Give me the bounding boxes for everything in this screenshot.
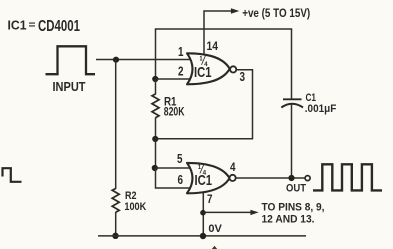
- input pulse waveform icon: [46, 46, 96, 74]
- wire: pin 5 stub: [156, 167, 192, 169]
- wire: top feedback rail: [155, 28, 292, 30]
- node: input junction: [113, 57, 119, 63]
- wire: pin 7 to 0V rail: [202, 193, 204, 236]
- label TO PINS 8, 9, 12 AND 13.: [262, 201, 325, 225]
- node: pin 7 to 0V rail junction: [200, 233, 206, 239]
- node: R2 to 0V rail junction: [112, 233, 118, 239]
- resistor R1: [152, 94, 159, 118]
- svg-text:6: 6: [178, 172, 184, 187]
- label C1 .001uF: [305, 92, 337, 115]
- wire: feedback horizontal from pin 3: [156, 138, 253, 140]
- svg-text:4: 4: [230, 162, 236, 174]
- arrowhead to pins 8,9,12,13: [250, 210, 258, 215]
- output square wave icon: [313, 164, 382, 190]
- node: pin 5 junction: [152, 165, 158, 171]
- svg-text:.001μF: .001μF: [305, 103, 337, 115]
- left-edge small pulse waveform (cut off): [3, 168, 22, 182]
- bottom caption arrow tip (cut off): [212, 246, 217, 249]
- svg-text:0V: 0V: [208, 223, 222, 235]
- svg-text:3: 3: [240, 69, 246, 84]
- wire: node down to pin 5: [155, 139, 157, 168]
- wire: pin 6 bracket: [156, 168, 192, 188]
- capacitor C1: [281, 29, 303, 178]
- wire: 0V rail: [98, 235, 306, 237]
- NOR gate U1b IC1 (pins 5,6 -> 4): [187, 163, 236, 193]
- svg-text:100K: 100K: [124, 201, 146, 213]
- title label IC1 = CD4001: [8, 18, 81, 35]
- label R1 820K: [164, 94, 185, 118]
- node: pin 7 arrow junction: [200, 210, 206, 216]
- svg-text:CD4001: CD4001: [38, 18, 80, 35]
- wire: arrow to pins 8,9,12,13: [203, 211, 251, 213]
- label R2 100K: [124, 190, 146, 213]
- svg-text:12 AND 13.: 12 AND 13.: [262, 213, 315, 225]
- wire: R1 bottom to node: [155, 118, 157, 140]
- node: R1 bottom / feedback junction: [152, 136, 158, 142]
- svg-text:5: 5: [177, 151, 183, 166]
- svg-text:820K: 820K: [164, 105, 185, 118]
- svg-text:INPUT: INPUT: [53, 80, 86, 94]
- svg-text:2: 2: [178, 64, 184, 79]
- NOR gate U1a IC1 (pins 1,2 -> 3): [187, 53, 236, 84]
- svg-text:7: 7: [207, 194, 213, 206]
- wire: R2 bottom to 0V rail: [115, 212, 117, 236]
- svg-text:+ve (5 TO 15V): +ve (5 TO 15V): [242, 6, 310, 20]
- node: OUT junction: [288, 175, 294, 181]
- OUT terminal circle: [305, 176, 310, 181]
- svg-text:OUT: OUT: [286, 183, 306, 195]
- wire: pin 2 stub: [156, 78, 192, 80]
- svg-text:=: =: [29, 20, 36, 31]
- wire: pin 2 node to R1 top: [155, 79, 157, 95]
- svg-text:1: 1: [178, 44, 184, 59]
- wire: input line to pin 1: [96, 59, 191, 61]
- wire: pin 4 output to OUT terminal: [236, 177, 305, 179]
- resistor R2: [112, 189, 119, 213]
- svg-text:14: 14: [207, 41, 219, 53]
- svg-text:IC1: IC1: [8, 18, 27, 33]
- svg-text:IC1: IC1: [194, 64, 212, 81]
- svg-text:IC1: IC1: [195, 172, 213, 189]
- svg-text:TO PINS 8, 9,: TO PINS 8, 9,: [262, 201, 325, 213]
- wire: pin 14 to +ve supply: [204, 11, 232, 54]
- wire: pin 3 output stub: [236, 69, 253, 71]
- wire: left vertical input to R2: [115, 60, 117, 190]
- supply arrowhead: [231, 8, 239, 14]
- wire: feedback vertical at pin 3: [252, 70, 254, 140]
- wire: C1 feedback top rail to pin 2 branch (vertical): [155, 29, 157, 79]
- node: pin 2 junction: [152, 76, 158, 82]
